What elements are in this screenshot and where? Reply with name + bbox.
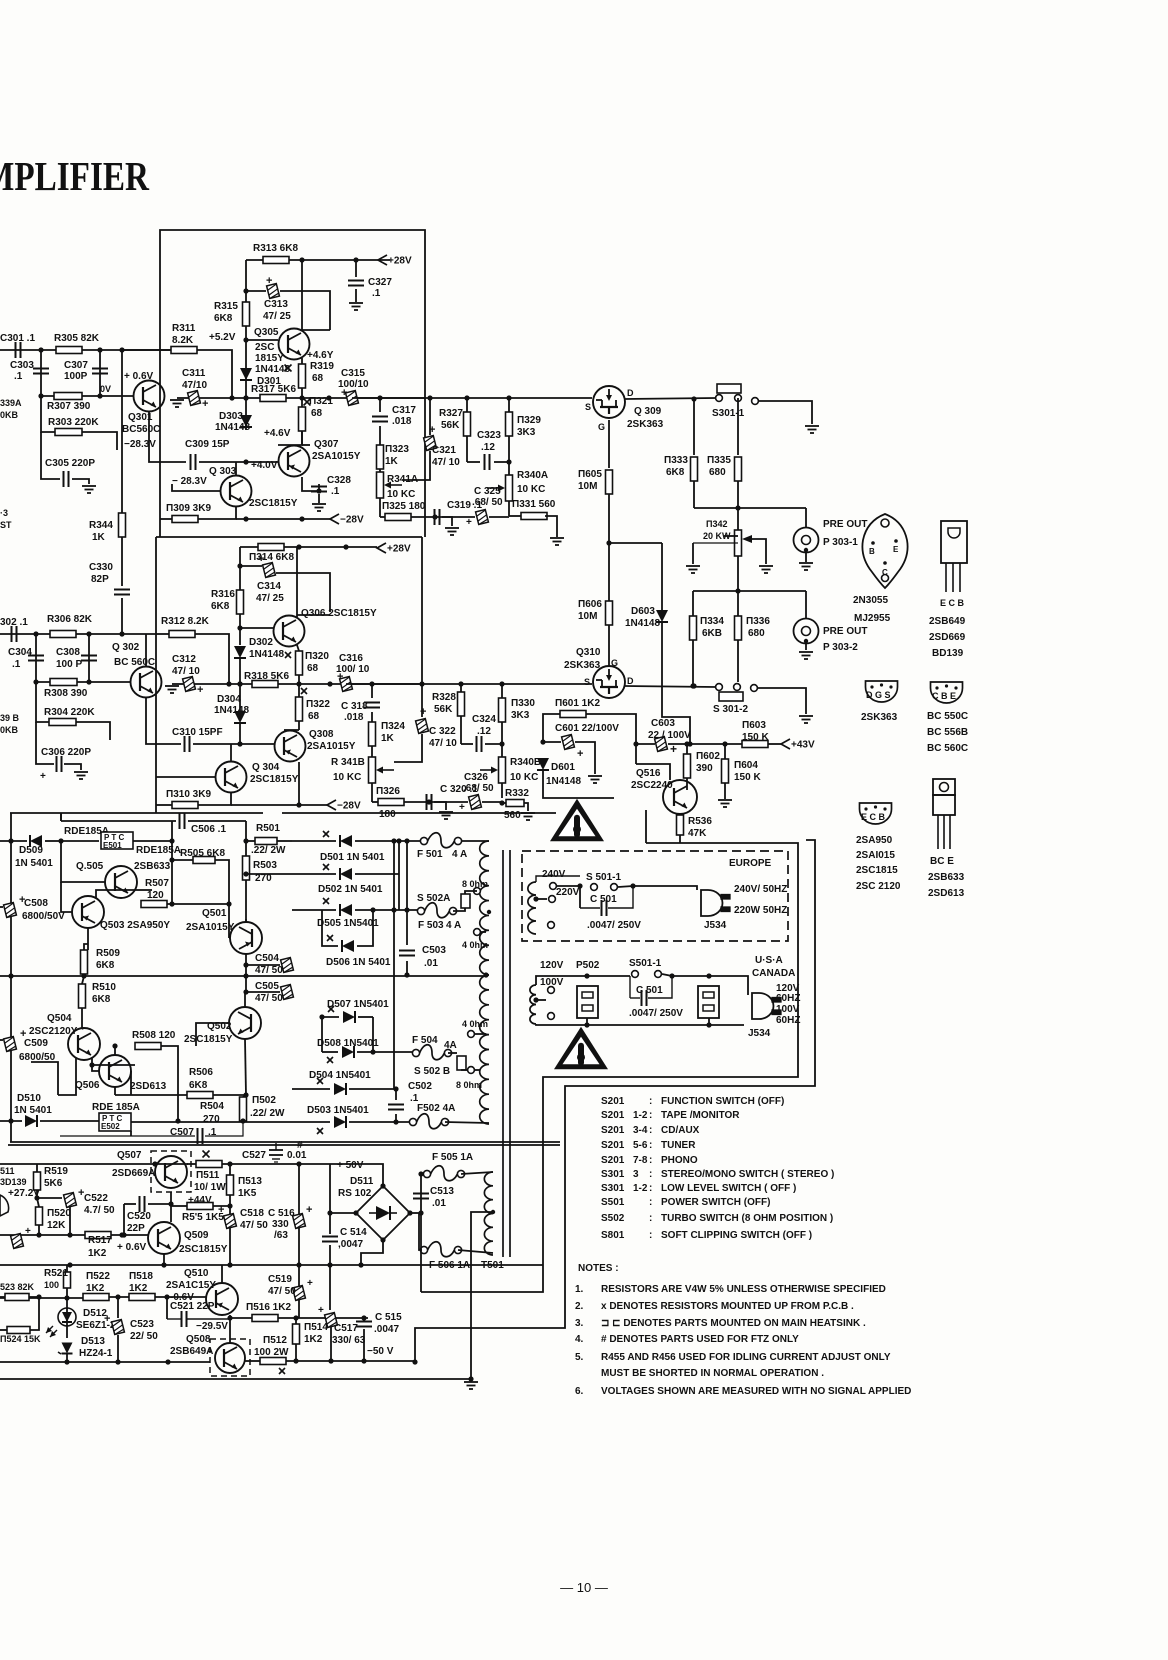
svg-text:F 505 1A: F 505 1A xyxy=(432,1152,473,1163)
wire left cap group xyxy=(0,1226,60,1249)
resistor R309 xyxy=(160,503,236,523)
svg-text:4.: 4. xyxy=(575,1334,584,1345)
wire main row ch1 extension xyxy=(352,395,592,400)
svg-text:2SA1015Y: 2SA1015Y xyxy=(186,922,235,933)
svg-text:C509: C509 xyxy=(24,1038,48,1049)
svg-text:56K: 56K xyxy=(441,420,460,431)
switch list entry S501 xyxy=(601,1197,770,1208)
svg-text:302 .1: 302 .1 xyxy=(0,617,28,628)
wire Q506 collector row xyxy=(114,1045,116,1047)
potentiometer R342 xyxy=(703,508,773,573)
svg-text:R308 390: R308 390 xyxy=(44,688,88,699)
svg-text:+ 0.6V: + 0.6V xyxy=(124,371,154,382)
resistor R317 xyxy=(251,384,296,402)
label 120V xyxy=(540,960,564,971)
svg-text:MUST BE SHORTED IN NORMAL: MUST BE SHORTED IN NORMAL OPERATION . xyxy=(601,1368,824,1379)
tap 8ohm upper xyxy=(462,879,488,894)
svg-text:S 502A: S 502A xyxy=(417,893,450,904)
svg-text:+: + xyxy=(466,517,472,528)
svg-text:VOLTAGES SHOWN ARE MEASURED: VOLTAGES SHOWN ARE MEASURED WITH NO SIGN… xyxy=(601,1386,911,1397)
wire R321-Q307 junction xyxy=(278,431,302,445)
svg-text:.0047/ 250V: .0047/ 250V xyxy=(629,1008,683,1019)
svg-text:S501: S501 xyxy=(601,1197,625,1208)
svg-text:C 514: C 514 xyxy=(340,1227,367,1238)
svg-text:47/ 10: 47/ 10 xyxy=(432,457,460,468)
package TO-92 2SK363 pinout xyxy=(861,681,898,723)
svg-text:100 2W: 100 2W xyxy=(254,1347,289,1358)
tap 4ohm lower xyxy=(462,1019,488,1037)
svg-text:C306 220P: C306 220P xyxy=(41,747,91,758)
wire Q504-Q506 left loop xyxy=(31,1058,76,1095)
svg-text:1K2: 1K2 xyxy=(304,1334,323,1345)
svg-text:C504: C504 xyxy=(255,953,279,964)
potentiometer R340B xyxy=(480,757,541,798)
resistor R509 xyxy=(81,944,121,979)
svg-text:C309 15P: C309 15P xyxy=(185,439,230,450)
transistor Q502 xyxy=(184,992,261,1045)
svg-text:R507: R507 xyxy=(145,878,169,889)
resistor R313 xyxy=(253,243,298,264)
ground T501 center tap xyxy=(464,1382,478,1389)
svg-text:BC 550C: BC 550C xyxy=(927,711,968,722)
transistor Q302 xyxy=(112,642,162,698)
svg-text:120: 120 xyxy=(147,890,164,901)
svg-text:BC 556B: BC 556B xyxy=(927,727,968,738)
switch list entry S502 xyxy=(601,1213,833,1224)
resistor R604 xyxy=(718,744,761,807)
svg-text:C 318: C 318 xyxy=(341,701,368,712)
svg-text:100 P: 100 P xyxy=(56,659,82,670)
svg-text:4 A: 4 A xyxy=(452,849,467,860)
svg-text:Π518: Π518 xyxy=(129,1271,153,1282)
notes heading xyxy=(578,1263,619,1274)
transistor Q516 xyxy=(631,768,697,814)
svg-text:C316: C316 xyxy=(339,653,363,664)
svg-text:.1: .1 xyxy=(331,486,340,497)
svg-text:C317: C317 xyxy=(392,405,416,416)
svg-text:S: S xyxy=(585,402,591,412)
capacitor C522 electrolytic xyxy=(37,1187,115,1238)
svg-text:C324: C324 xyxy=(472,714,496,725)
label USA CANADA xyxy=(752,955,795,979)
svg-text:R328: R328 xyxy=(432,692,456,703)
diode D505 xyxy=(292,898,418,929)
svg-text:+5.2V: +5.2V xyxy=(209,332,236,343)
svg-text:EUROPE: EUROPE xyxy=(729,858,772,869)
svg-text:C321: C321 xyxy=(432,445,456,456)
svg-text:C518: C518 xyxy=(240,1208,264,1219)
svg-text:+43V: +43V xyxy=(791,740,815,751)
resistor R305 xyxy=(54,333,100,354)
svg-text:390: 390 xyxy=(696,763,713,774)
svg-text:C 515: C 515 xyxy=(375,1312,402,1323)
svg-text:+: + xyxy=(306,1204,312,1216)
svg-text:− 28.3V: − 28.3V xyxy=(172,476,207,487)
svg-text:⊐ ⊏ DENOTES PARTS MOUNTED: ⊐ ⊏ DENOTES PARTS MOUNTED ON MAIN HEATSI… xyxy=(601,1318,866,1329)
capacitor C516 electrolytic xyxy=(268,1164,312,1265)
power supply block inner bottom border xyxy=(8,1144,560,1146)
potentiometer R341B xyxy=(331,757,394,802)
svg-text:.1: .1 xyxy=(14,371,23,382)
wire Q309 gate down xyxy=(608,420,610,468)
svg-text:1815Y: 1815Y xyxy=(255,353,284,364)
wire Q301 collector to R311 row xyxy=(122,349,171,351)
wire Q307 emitter xyxy=(302,444,310,446)
svg-text:E501: E501 xyxy=(103,841,122,850)
wire S301-2 to ground xyxy=(757,688,813,723)
svg-text:P 303-2: P 303-2 xyxy=(823,642,858,653)
notes line 1. xyxy=(575,1284,886,1295)
capacitor C505 electrolytic xyxy=(243,976,293,1004)
svg-text:2SC2120Y: 2SC2120Y xyxy=(29,1026,78,1037)
svg-text:R313 6K8: R313 6K8 xyxy=(253,243,298,254)
wire mid rail bottom amp xyxy=(0,1262,543,1267)
svg-text:MPLIFIER: MPLIFIER xyxy=(0,153,149,199)
svg-text:5K6: 5K6 xyxy=(44,1178,63,1189)
svg-text:2.: 2. xyxy=(575,1301,584,1312)
svg-text::: : xyxy=(649,1213,652,1224)
transistor Q509 xyxy=(117,1222,228,1255)
resistor R333 xyxy=(664,399,698,508)
svg-text:D511: D511 xyxy=(350,1176,374,1187)
capacitor C306 xyxy=(36,722,91,782)
resistor R319 xyxy=(299,358,335,398)
svg-text:2SB649A: 2SB649A xyxy=(170,1346,213,1357)
wire main row ch2 extension xyxy=(346,681,592,686)
svg-text:R519: R519 xyxy=(44,1166,68,1177)
svg-text:C 501: C 501 xyxy=(636,985,663,996)
transistor Q308 xyxy=(275,729,356,762)
svg-text:10 KC: 10 KC xyxy=(333,772,361,783)
svg-text:47/ 50: 47/ 50 xyxy=(255,965,283,976)
package TO-3 2N3055/MJ2955 xyxy=(853,514,908,624)
svg-text:47/ 25: 47/ 25 xyxy=(263,311,291,322)
diode D303 xyxy=(215,382,252,433)
svg-text:339A: 339A xyxy=(0,398,22,408)
capacitor C313 electrolytic xyxy=(243,260,330,330)
svg-text:+: + xyxy=(218,1204,224,1216)
switch list entry S301 1-2 xyxy=(601,1183,796,1194)
svg-text:1N 5401: 1N 5401 xyxy=(14,1105,52,1116)
svg-text:R503: R503 xyxy=(253,860,277,871)
svg-text:Π333: Π333 xyxy=(664,455,688,466)
svg-text:P 303-1: P 303-1 xyxy=(823,537,858,548)
page number xyxy=(560,1580,608,1595)
capacitor C502 xyxy=(388,1081,432,1125)
svg-text:2SA1C15Y: 2SA1C15Y xyxy=(166,1280,216,1291)
svg-text:R 341B: R 341B xyxy=(331,757,365,768)
svg-text:47/ 10: 47/ 10 xyxy=(172,666,200,677)
svg-text:Π522: Π522 xyxy=(86,1271,110,1282)
capacitor C325 electrolytic xyxy=(435,486,509,528)
svg-text:240V: 240V xyxy=(542,869,566,880)
resistor R603 xyxy=(725,720,781,748)
wire D510 row xyxy=(0,1093,99,1127)
resistor R310 xyxy=(156,789,231,809)
svg-text:523 82K: 523 82K xyxy=(0,1282,35,1292)
svg-text:C327: C327 xyxy=(368,277,392,288)
svg-text:Π514: Π514 xyxy=(304,1322,328,1333)
svg-text:C: C xyxy=(882,568,888,577)
resistor R515 xyxy=(171,1203,230,1224)
svg-text:7-8: 7-8 xyxy=(633,1155,648,1166)
svg-text:6K8: 6K8 xyxy=(96,960,115,971)
resistor R308 xyxy=(44,679,88,700)
svg-text:MJ2955: MJ2955 xyxy=(854,613,891,624)
svg-text:R307 390: R307 390 xyxy=(47,401,91,412)
resistor R522 xyxy=(83,1271,129,1301)
capacitor C324 xyxy=(461,714,502,752)
svg-text:D G S: D G S xyxy=(866,690,891,700)
transistor Q305 xyxy=(246,327,334,375)
switch list entry S201 xyxy=(601,1096,784,1107)
switch list entry S201 1-2 xyxy=(601,1110,740,1121)
svg-text:R455 AND R456 USED FOR ID: R455 AND R456 USED FOR IDLING CURRENT AD… xyxy=(601,1352,891,1363)
svg-text:−50 V: −50 V xyxy=(367,1346,394,1357)
svg-text:10M: 10M xyxy=(578,611,597,622)
wire box2 top rail +28V xyxy=(240,544,377,549)
svg-text:Q 309: Q 309 xyxy=(634,406,662,417)
svg-text:B: B xyxy=(869,547,875,556)
FTZ filter box channel-1 (upper) xyxy=(160,230,425,537)
marker hash xyxy=(297,1140,303,1151)
wire Q302 collector up xyxy=(145,634,147,666)
svg-text:D603: D603 xyxy=(631,606,655,617)
notes line 4. xyxy=(575,1334,799,1345)
svg-text:4 0hm: 4 0hm xyxy=(462,1019,488,1029)
svg-text:S501-1: S501-1 xyxy=(629,958,662,969)
package TO-92 2SA950 pinout xyxy=(856,803,901,892)
switch list entry S201 3-4 xyxy=(601,1125,700,1136)
svg-text:Q510: Q510 xyxy=(184,1268,209,1279)
capacitor C508 electrolytic xyxy=(0,894,65,922)
capacitor C320 xyxy=(427,784,479,819)
svg-text:+: + xyxy=(459,802,465,813)
svg-text:C305 220P: C305 220P xyxy=(45,458,95,469)
svg-text:−28V: −28V xyxy=(337,801,361,812)
diode D603 xyxy=(625,543,693,747)
svg-text:C521 22P: C521 22P xyxy=(170,1301,215,1312)
resistor R306 xyxy=(47,614,93,638)
resistor R326 xyxy=(372,786,432,820)
thermistor PTC E502 xyxy=(92,1102,292,1131)
svg-text:1N4148: 1N4148 xyxy=(215,422,250,433)
wire Q504 emitter to Q506 base xyxy=(89,1058,99,1071)
wire Q507 emitter down xyxy=(170,1192,172,1206)
resistor R320 xyxy=(296,645,330,684)
svg-text:S502: S502 xyxy=(601,1213,625,1224)
svg-text:Q508: Q508 xyxy=(186,1334,211,1345)
wire bottom rail 2 xyxy=(0,1378,471,1380)
resistor R303 xyxy=(41,396,117,450)
jack PRE OUT P303-2 xyxy=(794,591,868,659)
svg-text:BC 560C: BC 560C xyxy=(927,743,968,754)
svg-text:100V: 100V xyxy=(540,977,564,988)
switch S502B xyxy=(414,1056,468,1077)
tap 4ohm upper xyxy=(462,929,488,950)
resistor R510 xyxy=(79,976,117,1029)
svg-text:330/ 63: 330/ 63 xyxy=(332,1335,366,1346)
capacitor C303 xyxy=(10,350,49,390)
svg-text:Π325 180: Π325 180 xyxy=(382,501,426,512)
svg-text:100P: 100P xyxy=(64,371,88,382)
svg-text:Π321: Π321 xyxy=(309,396,333,407)
svg-text:BC E: BC E xyxy=(930,856,954,867)
resistor R334 xyxy=(690,616,725,689)
svg-text:R306 82K: R306 82K xyxy=(47,614,93,625)
wire Q306 collector up xyxy=(297,547,330,617)
svg-text:S301: S301 xyxy=(601,1183,625,1194)
svg-text:Π511: Π511 xyxy=(196,1170,220,1181)
svg-text:5.: 5. xyxy=(575,1352,584,1363)
svg-text:3.: 3. xyxy=(575,1318,584,1329)
wire box1 top rail +28V xyxy=(246,257,390,262)
svg-text:/63: /63 xyxy=(274,1230,288,1241)
svg-text:1K5: 1K5 xyxy=(238,1188,257,1199)
resistor R519 xyxy=(34,1164,69,1201)
capacitor C309 xyxy=(160,439,278,470)
svg-text:FUNCTION SWITCH (OFF): FUNCTION SWITCH (OFF) xyxy=(661,1096,784,1107)
svg-text:Π310 3K9: Π310 3K9 xyxy=(166,789,211,800)
wire Q310 gate chain xyxy=(609,543,662,601)
svg-text:C 516: C 516 xyxy=(268,1208,295,1219)
resistor R321 xyxy=(299,396,334,445)
resistor R521 xyxy=(44,1265,71,1301)
svg-text:Q509: Q509 xyxy=(184,1230,209,1241)
switch S501-1 EUROPE xyxy=(536,872,636,890)
svg-text:+4.6V: +4.6V xyxy=(264,428,291,439)
svg-text:Q504: Q504 xyxy=(47,1013,72,1024)
svg-text:.22/ 2W: .22/ 2W xyxy=(250,1108,285,1119)
switch S502A xyxy=(417,891,474,908)
wire Q308 emitter up xyxy=(284,729,299,731)
wire Q503 collector down xyxy=(87,928,89,950)
svg-text:2SAI015: 2SAI015 xyxy=(856,850,895,861)
svg-text:1K: 1K xyxy=(92,532,106,543)
notes line 5. xyxy=(575,1352,891,1363)
svg-text:+4.6Y: +4.6Y xyxy=(307,350,334,361)
svg-text:+: + xyxy=(25,1226,31,1237)
label 100V 60HZ xyxy=(776,1004,800,1026)
wire D304 to C310 row xyxy=(239,723,241,744)
svg-text:6.: 6. xyxy=(575,1386,584,1397)
svg-text:C519: C519 xyxy=(268,1274,292,1285)
svg-text:47/ 50: 47/ 50 xyxy=(268,1286,296,1297)
capacitor C312 electrolytic xyxy=(165,654,203,696)
transistor Q306 xyxy=(240,608,377,647)
svg-text:Q307: Q307 xyxy=(314,439,339,450)
svg-text:8 0hm: 8 0hm xyxy=(456,1080,482,1090)
notes line 3. xyxy=(575,1318,866,1329)
capacitor C504 electrolytic xyxy=(243,953,293,976)
svg-text:Q503 2SA950Y: Q503 2SA950Y xyxy=(100,920,170,931)
svg-text:2SC: 2SC xyxy=(255,342,274,353)
label -50V xyxy=(367,1346,394,1357)
svg-text:.68/ 50: .68/ 50 xyxy=(472,497,503,508)
svg-text:HZ24-1: HZ24-1 xyxy=(79,1348,113,1359)
wire Q516 emitter rail xyxy=(645,810,647,843)
wire USA bottom row xyxy=(536,1024,744,1025)
svg-text:R344: R344 xyxy=(89,520,113,531)
svg-text:SOFT CLIPPING SWITCH (OFF ): SOFT CLIPPING SWITCH (OFF ) xyxy=(661,1230,812,1241)
svg-text:220V: 220V xyxy=(556,887,580,898)
svg-text:3D139: 3D139 xyxy=(0,1177,27,1187)
resistor R323 xyxy=(377,444,410,472)
svg-text:S201: S201 xyxy=(601,1110,625,1121)
resistor R601 xyxy=(555,698,639,764)
wire Q501 emitter to mid rail xyxy=(243,965,248,979)
capacitor C330 xyxy=(89,562,130,634)
svg-text:2SC1815Y: 2SC1815Y xyxy=(250,774,299,785)
svg-text:C603: C603 xyxy=(651,718,675,729)
resistor R512 xyxy=(245,1335,289,1374)
svg-text:R312 8.2K: R312 8.2K xyxy=(161,616,210,627)
resistor R304 xyxy=(36,682,110,740)
svg-text:2SK363: 2SK363 xyxy=(861,712,898,723)
capacitor C328 xyxy=(311,475,351,511)
svg-text:560: 560 xyxy=(504,810,521,821)
svg-text:6K8: 6K8 xyxy=(92,994,111,1005)
fuse F502 xyxy=(409,1103,489,1129)
wire D509 row xyxy=(0,835,64,869)
svg-text:C 322: C 322 xyxy=(429,726,456,737)
wire -28V rail ch1 xyxy=(236,516,330,521)
diode D504 xyxy=(292,1070,399,1095)
capacitor C310 xyxy=(156,727,274,752)
resistor R602 xyxy=(684,741,721,790)
svg-text:ST: ST xyxy=(0,520,12,530)
svg-text:2SC2240: 2SC2240 xyxy=(631,780,673,791)
svg-text:Π309 3K9: Π309 3K9 xyxy=(166,503,211,514)
coil mains primary EUROPE xyxy=(528,882,539,934)
resistor R329 xyxy=(506,398,542,475)
wire Q502 emitter down xyxy=(245,1039,246,1095)
capacitor C307 xyxy=(64,350,108,390)
svg-text:+: + xyxy=(197,684,203,696)
svg-text:1K2: 1K2 xyxy=(86,1283,105,1294)
transistor Q505 xyxy=(76,861,171,898)
wire bridge connections xyxy=(299,1164,421,1265)
FET Q310 xyxy=(564,647,634,698)
svg-text:Π329: Π329 xyxy=(517,415,541,426)
svg-text:E C B: E C B xyxy=(940,598,965,608)
wire Q503 base row xyxy=(61,882,72,912)
switch S301-1 xyxy=(712,384,758,419)
svg-text:Π513: Π513 xyxy=(238,1176,262,1187)
FET Q309 xyxy=(585,386,664,432)
svg-text:1-2: 1-2 xyxy=(633,1110,648,1121)
svg-text::: : xyxy=(649,1197,652,1208)
capacitor C527 xyxy=(242,1143,307,1162)
svg-text:Π322: Π322 xyxy=(306,699,330,710)
wire Q302 emitter down xyxy=(146,698,156,744)
svg-text:Q308: Q308 xyxy=(309,729,334,740)
svg-text:6K8: 6K8 xyxy=(666,467,685,478)
coil transformer secondary lower xyxy=(480,975,489,1124)
capacitor C323 xyxy=(467,430,509,470)
wire Q303 base xyxy=(172,484,220,491)
dashed box EUROPE xyxy=(522,851,788,941)
package TO-92 BC550C pinout xyxy=(927,682,968,754)
resistor R504 xyxy=(175,1065,224,1125)
wire C520 drop xyxy=(121,1204,126,1238)
svg-text:Π520: Π520 xyxy=(47,1208,71,1219)
svg-text:S201: S201 xyxy=(601,1096,625,1107)
svg-text:22P: 22P xyxy=(127,1223,145,1234)
wire Q304 base xyxy=(156,776,215,778)
wire Q310 drain row xyxy=(625,683,716,688)
resistor R517 xyxy=(60,1232,148,1260)
